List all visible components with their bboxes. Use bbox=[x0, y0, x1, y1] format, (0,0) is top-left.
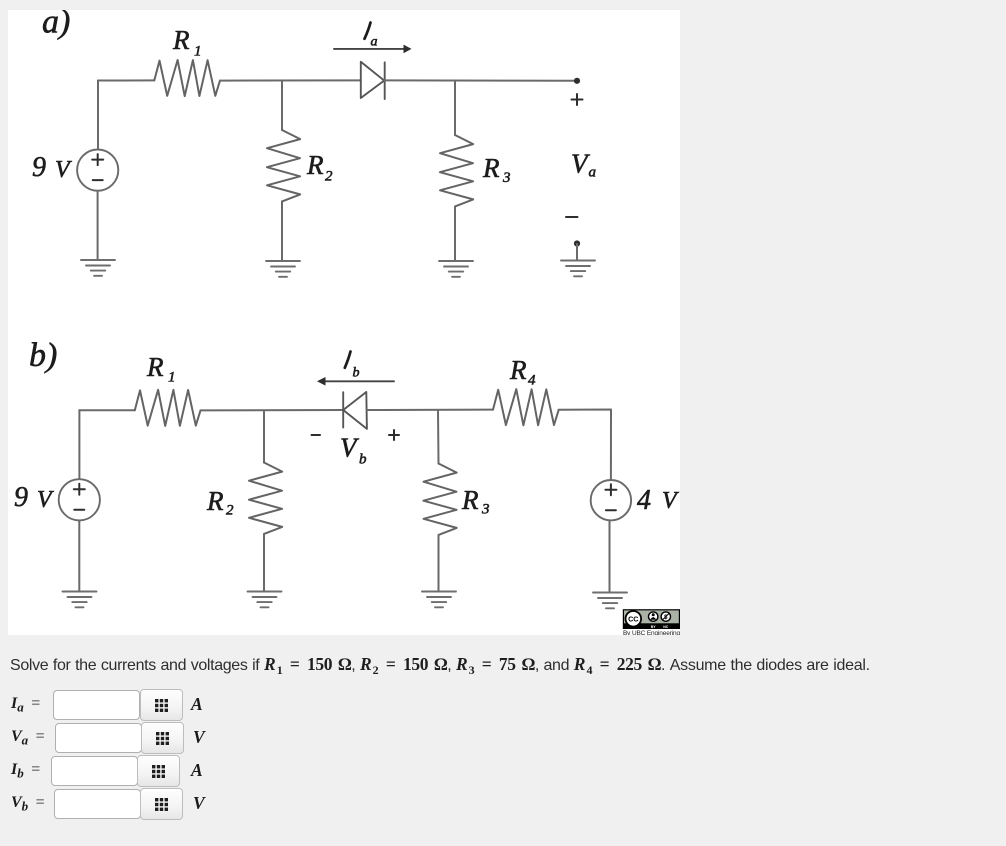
resistor R2 (circuit b) bbox=[249, 463, 282, 534]
label R3 (circuit b) bbox=[461, 485, 490, 518]
svg-text:CC: CC bbox=[628, 615, 638, 624]
ground: b) 4V source bbox=[593, 593, 627, 609]
label 9 V (circuit a) bbox=[32, 152, 72, 183]
resistor R1 (circuit a) bbox=[154, 60, 220, 96]
answer row Vb bbox=[11, 794, 45, 812]
plus sign Vb bbox=[389, 430, 399, 440]
label 4 V (circuit b) bbox=[637, 485, 679, 516]
ground: b) R3 bbox=[422, 592, 456, 608]
ground: a) Va reference bbox=[561, 261, 595, 277]
wire: b) R4 to 4V source corner bbox=[559, 410, 611, 481]
svg-text:1: 1 bbox=[168, 370, 176, 386]
wire: a) R2 bottom lead bbox=[281, 201, 283, 260]
resistor R2 (circuit a) bbox=[267, 130, 300, 201]
plus sign Va bbox=[572, 94, 583, 105]
svg-text:V: V bbox=[340, 433, 360, 463]
current arrow Ib bbox=[317, 377, 394, 386]
wire: b) R3 top lead bbox=[437, 410, 440, 464]
wire: a) diode to node + bbox=[385, 79, 577, 81]
wire: b) top left segment bbox=[79, 409, 134, 411]
resistor R3 (circuit b) bbox=[423, 464, 456, 535]
svg-text:9: 9 bbox=[14, 482, 28, 513]
svg-text:BY: BY bbox=[651, 625, 657, 629]
white image panel bbox=[8, 10, 680, 635]
label R2 (circuit b) bbox=[206, 486, 234, 519]
answer row Va bbox=[11, 728, 45, 746]
svg-text:2: 2 bbox=[226, 503, 234, 519]
wire: b) diode to R4 bbox=[367, 409, 493, 411]
answer row Ib bbox=[11, 761, 41, 779]
svg-text:4: 4 bbox=[637, 485, 651, 516]
question text bbox=[10, 654, 870, 675]
diode D_a (circuit a) bbox=[361, 62, 385, 99]
wire: a) R3 bottom lead bbox=[454, 206, 456, 260]
label Vb bbox=[340, 433, 367, 468]
badge caption By UBC Engineering bbox=[623, 630, 680, 637]
wire: a) source bottom lead bbox=[97, 191, 99, 260]
svg-text:V: V bbox=[662, 488, 679, 514]
CC BY-NC license badge bbox=[623, 610, 679, 629]
wire: b) R2 top lead bbox=[263, 410, 265, 462]
node dot Va- bbox=[574, 240, 580, 246]
circuit b) label bbox=[29, 337, 57, 374]
wire: b) 4V source bottom lead bbox=[609, 520, 611, 592]
label Ib bbox=[345, 352, 360, 381]
minus sign Vb bbox=[312, 434, 321, 436]
svg-text:3: 3 bbox=[502, 170, 511, 186]
svg-text:R: R bbox=[172, 25, 190, 55]
wire: a) R1 to diode bbox=[220, 79, 361, 81]
wire: b) source bottom lead bbox=[78, 520, 80, 591]
svg-text:R: R bbox=[306, 150, 324, 180]
wire: Va- dot to ground bbox=[576, 244, 578, 260]
svg-text:b: b bbox=[353, 366, 360, 381]
ground: a) source bbox=[81, 260, 115, 276]
answer row Ia bbox=[11, 695, 41, 713]
wire: b) R1 to diode bbox=[201, 409, 344, 411]
label R4 (circuit b) bbox=[509, 355, 536, 389]
svg-text:3: 3 bbox=[481, 502, 490, 518]
voltage source 4V (circuit b) bbox=[591, 480, 631, 520]
label R1 (circuit a) bbox=[172, 25, 202, 60]
resistor R4 (circuit b) bbox=[493, 389, 559, 425]
svg-text:R: R bbox=[509, 355, 527, 385]
resistor R1 (circuit b) bbox=[135, 390, 201, 426]
circuit a) label bbox=[42, 4, 70, 41]
ground: a) R3 bbox=[439, 261, 473, 277]
label R2 (circuit a) bbox=[306, 150, 333, 185]
label Ia bbox=[365, 23, 378, 50]
svg-text:2: 2 bbox=[325, 169, 333, 185]
voltage source 9V (circuit a) bbox=[77, 150, 118, 191]
svg-text:a): a) bbox=[42, 10, 70, 41]
wire: b) R3 bottom lead bbox=[438, 535, 440, 591]
ground: b) R2 bbox=[248, 592, 282, 608]
svg-text:V: V bbox=[55, 157, 72, 183]
label Va bbox=[571, 149, 596, 181]
label 9 V (circuit b) bbox=[14, 482, 54, 513]
svg-text:a: a bbox=[589, 165, 597, 181]
wire: a) source top lead bbox=[97, 81, 99, 150]
current arrow Ia bbox=[334, 45, 412, 54]
svg-text:4: 4 bbox=[528, 373, 536, 389]
wire: a) R3 top lead bbox=[454, 81, 456, 136]
node dot + terminal (Va+) bbox=[574, 78, 580, 84]
voltage source 9V (circuit b) bbox=[59, 479, 100, 520]
wire: b) R2 bottom lead bbox=[263, 534, 265, 591]
svg-text:R: R bbox=[461, 485, 479, 515]
svg-text:9: 9 bbox=[32, 152, 46, 183]
wire: a) R2 top lead bbox=[281, 81, 283, 131]
label R1 (circuit b) bbox=[146, 352, 176, 386]
wire: a) top left segment bbox=[98, 79, 154, 81]
svg-text:NC: NC bbox=[663, 625, 669, 629]
svg-text:b: b bbox=[359, 452, 367, 468]
svg-text:R: R bbox=[146, 352, 164, 382]
svg-text:By UBC Engineering: By UBC Engineering bbox=[623, 630, 680, 635]
wire: b) source top lead bbox=[78, 410, 80, 479]
svg-text:R: R bbox=[206, 486, 224, 516]
svg-text:R: R bbox=[482, 153, 500, 183]
ground: b) source bbox=[63, 592, 97, 608]
svg-text:1: 1 bbox=[194, 44, 202, 60]
diode D_b (circuit b) bbox=[343, 392, 367, 429]
minus sign Va bbox=[566, 216, 578, 218]
svg-text:b): b) bbox=[29, 337, 57, 374]
svg-text:V: V bbox=[37, 487, 54, 513]
ground: a) R2 bbox=[266, 261, 300, 277]
resistor R3 (circuit a) bbox=[440, 135, 473, 206]
svg-text:a: a bbox=[371, 35, 378, 50]
label R3 (circuit a) bbox=[482, 153, 511, 186]
